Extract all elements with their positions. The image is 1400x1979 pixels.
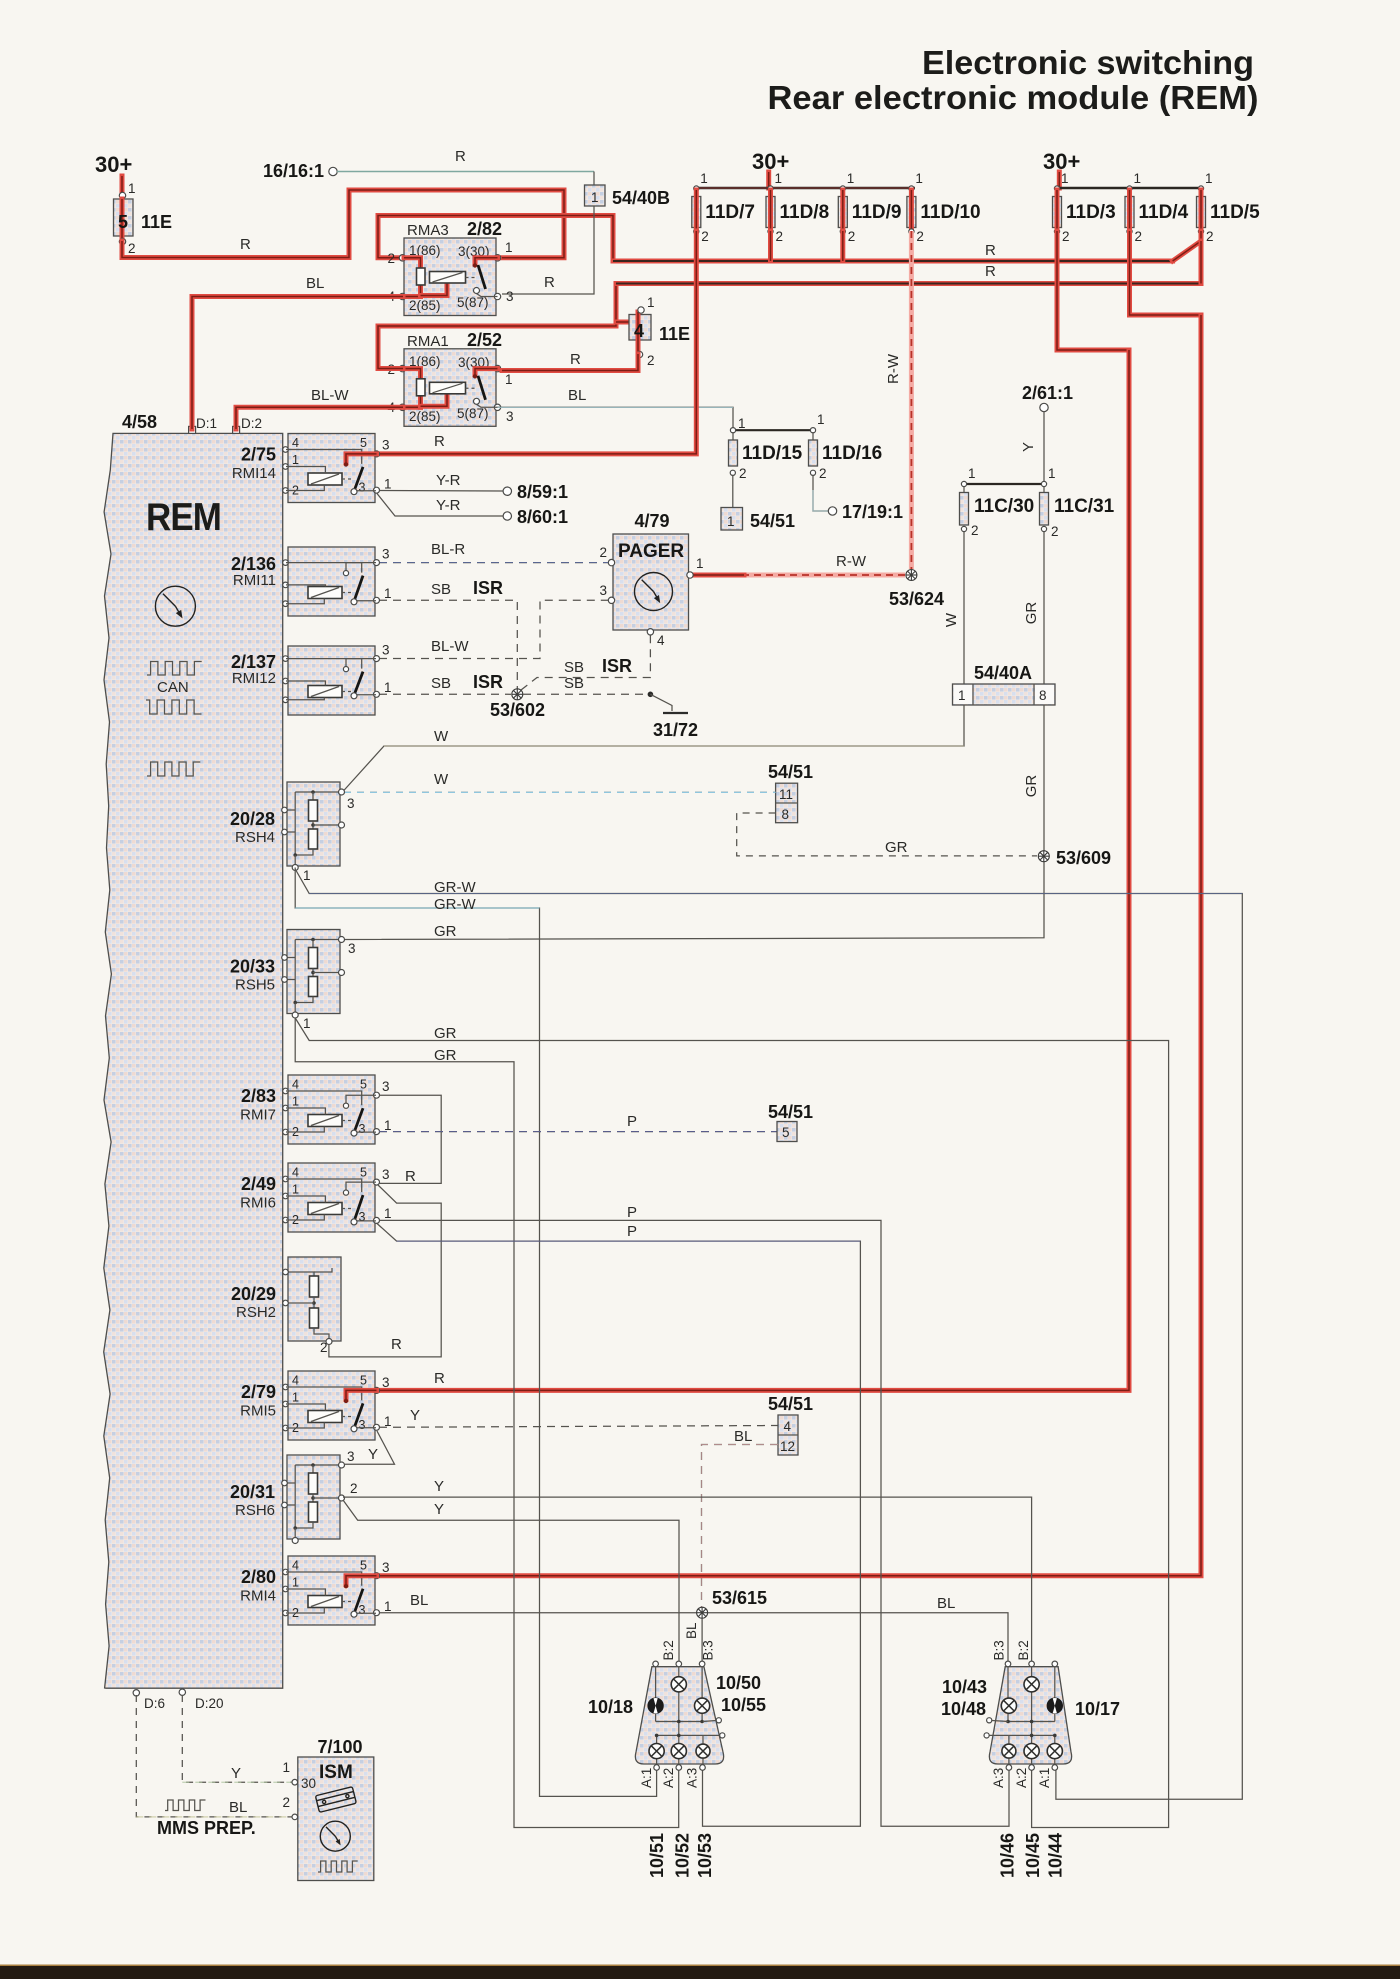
left cluster bottom pins A:1 A:2 A:3 <box>654 1765 660 1771</box>
svg-text:GR: GR <box>434 1025 457 1042</box>
ISM pin 30/1 <box>292 1779 298 1785</box>
svg-text:4: 4 <box>292 436 299 450</box>
svg-text:1: 1 <box>591 190 599 205</box>
svg-text:4: 4 <box>292 1374 299 1388</box>
svg-text:53/624: 53/624 <box>889 589 944 609</box>
connector 8/60:1 <box>503 512 511 520</box>
fuse bar 1 <box>696 187 915 189</box>
lamp bottom row left cluster <box>649 1744 664 1759</box>
svg-text:R: R <box>405 1168 416 1185</box>
REM square wave lower <box>147 762 200 776</box>
lamp cluster 10/43 10/48 (right) trapezoid <box>989 1667 1071 1764</box>
svg-text:4: 4 <box>292 1559 299 1573</box>
relay RMA1 2/52 <box>404 349 496 427</box>
left cluster right stub pins <box>703 1721 716 1722</box>
svg-text:R: R <box>240 236 251 253</box>
svg-text:3: 3 <box>382 547 390 562</box>
svg-text:RMI4: RMI4 <box>240 1588 276 1605</box>
red bus R lower <box>616 281 1201 286</box>
svg-text:R: R <box>434 1370 445 1387</box>
bottom page edge bar <box>0 1965 1400 1967</box>
svg-text:1: 1 <box>505 240 513 255</box>
PAGER pin4 <box>647 629 653 635</box>
svg-text:11C/30: 11C/30 <box>974 496 1034 517</box>
svg-text:1: 1 <box>292 1095 299 1109</box>
svg-text:3: 3 <box>347 796 355 811</box>
svg-text:10/53: 10/53 <box>695 1833 715 1878</box>
fuse 11D/10 <box>909 186 914 191</box>
svg-text:53/602: 53/602 <box>490 700 545 720</box>
svg-text:A:2: A:2 <box>661 1768 676 1788</box>
svg-text:1: 1 <box>292 453 299 467</box>
svg-text:4: 4 <box>634 321 644 341</box>
svg-text:2/82: 2/82 <box>467 219 502 239</box>
right cluster internal wires <box>1007 1667 1009 1699</box>
wire 11D/16 pin2 to 17/19:1 <box>813 475 828 511</box>
svg-text:R: R <box>985 242 996 259</box>
svg-text:4: 4 <box>292 1166 299 1180</box>
wire 11D/3 pin2 down and right to long vertical B <box>1057 231 1129 350</box>
svg-text:R: R <box>544 274 555 291</box>
svg-text:1: 1 <box>128 181 136 196</box>
svg-text:2: 2 <box>320 1340 328 1355</box>
wire P from 2/49 pin1 to right lamp A:3 <box>379 1220 1009 1826</box>
svg-text:ISR: ISR <box>473 672 503 692</box>
svg-text:R: R <box>391 1336 402 1353</box>
svg-text:BL-R: BL-R <box>431 541 465 558</box>
wire R from 11E/4 pin2 to RMA1 pin1 <box>502 354 638 371</box>
svg-text:54/51: 54/51 <box>768 762 813 782</box>
fuse 11E pos4 <box>629 315 651 341</box>
connector 17/19:1 <box>828 507 836 515</box>
REM pin D:20 <box>179 1689 185 1695</box>
svg-text:BL-W: BL-W <box>431 638 469 655</box>
wire 11D/8 pin2 to bus R <box>768 231 773 261</box>
svg-text:2/80: 2/80 <box>241 1567 276 1587</box>
wire Y-R from 2/75 pin1 to 8/59:1 <box>379 490 503 493</box>
svg-text:1: 1 <box>292 1391 299 1405</box>
svg-text:BL: BL <box>937 1595 955 1612</box>
svg-text:RMI6: RMI6 <box>240 1195 276 1212</box>
svg-text:10/46: 10/46 <box>998 1833 1018 1878</box>
svg-text:2: 2 <box>819 466 827 481</box>
svg-text:CAN: CAN <box>157 679 189 696</box>
resistor module 20/29 RSH2 <box>288 1257 341 1341</box>
svg-text:2: 2 <box>128 241 136 256</box>
svg-text:2: 2 <box>1051 524 1059 539</box>
svg-text:8/60:1: 8/60:1 <box>517 507 568 527</box>
svg-text:4/79: 4/79 <box>634 511 669 531</box>
svg-text:D:6: D:6 <box>144 1696 165 1711</box>
svg-text:8/59:1: 8/59:1 <box>517 482 568 502</box>
REM pin D:6 <box>133 1690 139 1696</box>
svg-text:BL-W: BL-W <box>311 387 349 404</box>
svg-text:3: 3 <box>359 481 366 495</box>
wire bus feed to RMA3 coil: from bus R down x613 to y215 <box>378 216 613 262</box>
REM pin D:1 <box>189 426 196 433</box>
svg-text:11C/31: 11C/31 <box>1054 496 1115 517</box>
svg-text:2: 2 <box>739 466 747 481</box>
connector 8/59:1 <box>503 487 511 495</box>
svg-text:2(85): 2(85) <box>409 409 441 424</box>
svg-text:1: 1 <box>1048 466 1056 481</box>
wire GR from 11C/31 to 54/40A pin8 <box>1043 532 1045 684</box>
svg-text:3: 3 <box>506 409 514 424</box>
svg-text:RMA3: RMA3 <box>407 222 449 239</box>
svg-text:Y-R: Y-R <box>436 472 461 489</box>
svg-text:B:3: B:3 <box>992 1640 1007 1660</box>
svg-text:2/49: 2/49 <box>241 1174 276 1194</box>
svg-text:5(87): 5(87) <box>457 406 489 421</box>
svg-text:3: 3 <box>382 643 390 658</box>
svg-text:11D/10: 11D/10 <box>920 202 980 223</box>
svg-text:5: 5 <box>360 1166 367 1180</box>
svg-text:1: 1 <box>384 586 392 601</box>
svg-text:2/83: 2/83 <box>241 1086 276 1106</box>
REM clock symbol <box>155 586 195 626</box>
svg-text:1: 1 <box>1134 171 1142 186</box>
wire GR dashed from 54/51 pin8 to splice 53/609 <box>737 813 1037 856</box>
relay 2/83 RMI7 <box>288 1075 375 1144</box>
relay 2/79 RMI5 <box>288 1371 375 1440</box>
svg-text:GR-W: GR-W <box>434 879 476 896</box>
svg-text:5: 5 <box>360 1559 367 1573</box>
svg-text:A:1: A:1 <box>1037 1768 1052 1788</box>
svg-text:RSH2: RSH2 <box>236 1304 276 1321</box>
wire BL-W dashed from 2/137 pin3 to PAGER pin3 <box>379 600 608 658</box>
wire P dashed from 2/83 pin1 to 54/51 pin5 <box>379 1131 777 1133</box>
svg-text:12: 12 <box>780 1439 795 1454</box>
svg-text:3: 3 <box>382 1375 390 1390</box>
ISM cassette icon <box>315 1787 356 1813</box>
wire W from 54/40A pin1 down-left to 20/28 pin3 <box>342 705 964 793</box>
svg-text:BL: BL <box>568 387 586 404</box>
fuse 11D/15 <box>730 428 735 433</box>
svg-text:3: 3 <box>382 1079 390 1094</box>
svg-text:5: 5 <box>118 212 128 232</box>
svg-text:REM: REM <box>146 496 221 539</box>
ISM clock icon <box>320 1821 350 1851</box>
wire R from 16/16:1 to 54/40B <box>337 171 594 173</box>
wire W from 11C/30 to 54/40A pin1 <box>963 532 965 684</box>
right cluster pin B:2 <box>1029 1661 1035 1667</box>
ISM square wave <box>318 1861 358 1872</box>
wire R from 54/40B down to RMA3 pin3 <box>502 206 594 294</box>
svg-text:Y: Y <box>1020 442 1037 452</box>
svg-text:GR-W: GR-W <box>434 896 476 913</box>
wire Y from 2/61:1 to 11C bar <box>1043 412 1045 483</box>
fuse 11C/30 <box>961 481 966 486</box>
svg-text:54/40A: 54/40A <box>974 663 1032 683</box>
svg-text:2/136: 2/136 <box>231 554 276 574</box>
svg-text:11D/4: 11D/4 <box>1139 202 1189 223</box>
svg-text:1: 1 <box>303 1016 311 1031</box>
svg-text:11E: 11E <box>659 324 690 344</box>
svg-text:10/17: 10/17 <box>1075 1699 1120 1719</box>
svg-text:10/52: 10/52 <box>673 1833 693 1878</box>
svg-text:5: 5 <box>360 1374 367 1388</box>
svg-text:A:3: A:3 <box>685 1768 700 1788</box>
svg-text:5(87): 5(87) <box>457 295 489 310</box>
svg-text:2: 2 <box>1062 229 1070 244</box>
red bus R upper <box>613 259 1173 264</box>
PAGER pin2 <box>608 559 614 565</box>
fuse 11D/16 <box>810 428 815 433</box>
svg-text:20/33: 20/33 <box>230 957 275 977</box>
svg-text:1: 1 <box>1061 171 1069 186</box>
svg-text:10/43: 10/43 <box>942 1677 987 1697</box>
wire BL from splice down to left lamp B:3 <box>701 1619 703 1664</box>
svg-text:10/51: 10/51 <box>647 1833 667 1878</box>
svg-text:2: 2 <box>1135 229 1143 244</box>
splice 53/602 <box>512 689 523 700</box>
wire Y dashed from 2/79 pin1 to 54/51 pin4 <box>379 1426 778 1428</box>
svg-text:16/16:1: 16/16:1 <box>263 161 324 181</box>
svg-text:20/28: 20/28 <box>230 809 275 829</box>
svg-text:2(85): 2(85) <box>409 298 441 313</box>
lamp right 10/55 <box>695 1698 710 1713</box>
svg-text:ISM: ISM <box>319 1762 353 1783</box>
svg-text:GR: GR <box>885 839 908 856</box>
svg-text:1: 1 <box>847 171 855 186</box>
svg-text:2: 2 <box>916 229 924 244</box>
fuse 11C/31 <box>1041 481 1046 486</box>
fuse bar 11D/15-16 <box>733 429 813 431</box>
svg-text:A:3: A:3 <box>991 1768 1006 1788</box>
svg-text:1: 1 <box>817 412 825 427</box>
svg-text:MMS PREP.: MMS PREP. <box>157 1818 256 1838</box>
svg-text:31/72: 31/72 <box>653 720 698 740</box>
svg-text:10/45: 10/45 <box>1023 1833 1043 1878</box>
ground 31/72 <box>648 692 654 698</box>
wire Y from 20/31 pin2 diagonal to left lamp B:2 <box>343 1500 679 1664</box>
wire R-W dashed from splice to PAGER pin1 <box>744 573 905 578</box>
wire R-W dashed from 11D/10 down to splice 53/624 <box>909 231 914 569</box>
svg-text:53/609: 53/609 <box>1056 848 1111 868</box>
svg-text:3: 3 <box>359 1210 366 1224</box>
svg-text:R-W: R-W <box>885 353 902 384</box>
long red vertical B (to 2/79) <box>379 350 1129 1390</box>
svg-text:5: 5 <box>360 436 367 450</box>
resistor module 20/33 RSH5 <box>287 930 340 1014</box>
svg-text:1: 1 <box>696 556 704 571</box>
svg-text:1: 1 <box>292 1576 299 1590</box>
svg-text:1: 1 <box>700 171 708 186</box>
svg-text:P: P <box>627 1223 637 1240</box>
svg-text:Rear electronic module (REM): Rear electronic module (REM) <box>768 79 1259 116</box>
svg-text:2: 2 <box>647 353 655 368</box>
svg-text:BL: BL <box>229 1799 247 1816</box>
MMS PREP square wave <box>165 1800 205 1811</box>
svg-text:2/75: 2/75 <box>241 445 276 465</box>
wire BL-W from RMA1 pin4 to REM D:2 <box>236 407 403 429</box>
wire GR from 20/33 pin1 down to left lamp A:2 <box>295 1018 679 1828</box>
fuse bar 2 <box>1057 187 1203 189</box>
svg-text:1: 1 <box>727 514 735 529</box>
svg-text:Y: Y <box>434 1478 444 1495</box>
svg-text:11D/5: 11D/5 <box>1210 202 1260 223</box>
svg-text:1: 1 <box>384 680 392 695</box>
svg-text:2: 2 <box>848 229 856 244</box>
svg-text:1: 1 <box>968 466 976 481</box>
svg-text:3: 3 <box>347 1449 355 1464</box>
fuse 11D/9 <box>840 186 845 191</box>
splice 53/624 <box>906 570 917 581</box>
svg-text:RSH5: RSH5 <box>235 977 275 994</box>
fuse 11D/8 <box>768 186 773 191</box>
connector 54/51 pin1 <box>721 508 743 531</box>
svg-text:D:2: D:2 <box>241 416 262 431</box>
svg-text:1: 1 <box>384 477 392 492</box>
svg-text:7/100: 7/100 <box>317 1737 362 1757</box>
svg-text:GR: GR <box>434 923 457 940</box>
svg-text:W: W <box>943 612 960 627</box>
svg-text:W: W <box>434 728 449 745</box>
svg-text:54/51: 54/51 <box>768 1394 813 1414</box>
splice 53/615 <box>697 1607 708 1618</box>
svg-text:2: 2 <box>282 1795 290 1810</box>
svg-text:RMI14: RMI14 <box>232 465 276 482</box>
relay 2/75 RMI14 <box>288 434 375 503</box>
svg-text:11D/16: 11D/16 <box>822 443 882 464</box>
relay RMA3 2/82 <box>404 238 496 316</box>
svg-text:11E: 11E <box>141 212 172 232</box>
svg-text:11D/7: 11D/7 <box>705 202 755 223</box>
svg-text:4: 4 <box>657 633 665 648</box>
svg-text:Y-R: Y-R <box>436 497 461 514</box>
PAGER pin3 <box>608 597 614 603</box>
svg-text:4: 4 <box>292 1078 299 1092</box>
relay 2/137 RMI12 <box>288 646 375 715</box>
svg-text:2: 2 <box>776 229 784 244</box>
svg-text:R: R <box>570 351 581 368</box>
svg-text:11D/3: 11D/3 <box>1066 202 1116 223</box>
svg-text:P: P <box>627 1204 637 1221</box>
wire 11D/4 pin2 down and right to long vertical A <box>1130 231 1202 315</box>
svg-text:5: 5 <box>360 1078 367 1092</box>
wire 11D/5 pin2 down to bus R lower <box>1199 241 1204 284</box>
svg-text:4: 4 <box>784 1419 792 1434</box>
svg-text:RMI12: RMI12 <box>232 670 276 687</box>
svg-text:10/18: 10/18 <box>588 1697 633 1717</box>
svg-text:1: 1 <box>282 1760 290 1775</box>
svg-text:1: 1 <box>1205 171 1213 186</box>
left cluster pin B:3 <box>699 1661 705 1667</box>
svg-text:2: 2 <box>971 523 979 538</box>
svg-text:PAGER: PAGER <box>618 541 684 562</box>
left cluster top stub pin <box>653 1661 659 1667</box>
ISM pin 2 <box>292 1814 298 1820</box>
svg-text:3: 3 <box>599 583 607 598</box>
svg-text:2/61:1: 2/61:1 <box>1022 383 1073 403</box>
svg-text:R: R <box>455 148 466 165</box>
svg-text:R: R <box>985 263 996 280</box>
svg-text:2/79: 2/79 <box>241 1382 276 1402</box>
wire Y-R from 2/75 blade to 8/60:1 <box>377 494 503 517</box>
svg-text:GR: GR <box>1023 602 1040 625</box>
wire W dashed from 20/28 pin3 to 54/51 pin11 <box>344 791 776 793</box>
wire GR-W from 20/28 pin1 to left lamp A:1 <box>295 869 656 1796</box>
svg-text:B:3: B:3 <box>700 1640 715 1660</box>
lamp cluster 10/50 10/55 (left) trapezoid <box>635 1667 723 1764</box>
wire R from 11E/5 to RMA3 pin1 (3/30) <box>122 190 564 258</box>
svg-text:Y: Y <box>368 1446 378 1463</box>
svg-text:P: P <box>627 1113 637 1130</box>
svg-text:RMI5: RMI5 <box>240 1403 276 1420</box>
svg-text:BL: BL <box>684 1622 699 1639</box>
right cluster pin B:3 <box>1005 1661 1011 1667</box>
wire P from 2/49 pin1 to left lamp A:3 <box>377 1224 860 1827</box>
lamp top 10/50 <box>671 1677 686 1692</box>
bulb 10/18 <box>648 1698 664 1714</box>
svg-text:4/58: 4/58 <box>122 412 157 432</box>
svg-text:1: 1 <box>303 868 311 883</box>
wire Y zigzag from 2/79 blade to 20/31 pin3 <box>344 1431 395 1464</box>
splice 53/609 <box>1038 851 1049 862</box>
svg-text:3: 3 <box>382 1167 390 1182</box>
svg-text:GR: GR <box>1023 775 1040 798</box>
wire 30+ to bar 1 <box>766 172 771 188</box>
wire Y from 20/31 pin2 to right lamp B:2 <box>343 1497 1032 1664</box>
right cluster bottom pins A:3 A:2 A:1 <box>1006 1765 1012 1771</box>
svg-text:2: 2 <box>350 1481 358 1496</box>
svg-text:2: 2 <box>701 229 709 244</box>
svg-text:53/615: 53/615 <box>712 1588 767 1608</box>
bulb 10/17 <box>1047 1698 1063 1714</box>
svg-text:20/29: 20/29 <box>231 1284 276 1304</box>
svg-text:RSH6: RSH6 <box>235 1502 275 1519</box>
svg-text:ISR: ISR <box>602 656 632 676</box>
left cluster pin B:2 <box>676 1661 682 1667</box>
lamp left right-cluster <box>1001 1698 1016 1713</box>
svg-text:54/40B: 54/40B <box>612 188 670 208</box>
wire 11D/5 pin2 diagonal to bus R end <box>1173 231 1201 261</box>
svg-text:8: 8 <box>782 807 790 822</box>
svg-text:5: 5 <box>782 1125 790 1140</box>
PAGER pin1 <box>687 572 693 578</box>
wire SB dashed from 2/137 pin1 to splice 53/602 <box>379 693 511 695</box>
svg-text:BL: BL <box>734 1428 752 1445</box>
svg-text:1: 1 <box>292 1183 299 1197</box>
svg-text:1: 1 <box>384 1599 392 1614</box>
wire 11D/15 pin2 to 54/51 pin1 <box>732 475 734 507</box>
long red vertical A (to 2/80) <box>379 315 1201 1576</box>
left cluster internal wires <box>655 1667 657 1699</box>
svg-text:D:20: D:20 <box>195 1696 224 1711</box>
svg-text:1: 1 <box>775 171 783 186</box>
svg-text:2/52: 2/52 <box>467 330 502 350</box>
wire BL dashed from 54/51 pin12 to splice 53/615 <box>702 1445 779 1608</box>
svg-text:R: R <box>434 433 445 450</box>
svg-text:17/19:1: 17/19:1 <box>842 502 903 522</box>
wire branch to fuse 11E/4 pin1 <box>616 312 638 322</box>
svg-text:Y: Y <box>231 1765 241 1782</box>
wire GR-W from 20/28 pin1 to right lamp A:1 <box>295 868 1242 1800</box>
svg-text:30: 30 <box>301 1776 316 1791</box>
wire BL from 2/80 pin1 to right lamp B:3 <box>379 1613 1008 1664</box>
lamp top right cluster <box>1024 1677 1039 1692</box>
right cluster left stub pins <box>992 1721 1008 1722</box>
svg-text:11D/15: 11D/15 <box>742 443 803 464</box>
svg-text:54/51: 54/51 <box>750 511 795 531</box>
wire ISR dashed from splice up to PAGER pin4 <box>521 634 650 690</box>
svg-text:BL: BL <box>410 1592 428 1609</box>
REM module 4/58 box <box>104 433 283 1688</box>
REM CAN square wave lower <box>146 700 201 714</box>
connector 54/40B <box>585 185 606 206</box>
svg-text:Electronic switching: Electronic switching <box>922 44 1254 81</box>
svg-text:2: 2 <box>599 545 607 560</box>
